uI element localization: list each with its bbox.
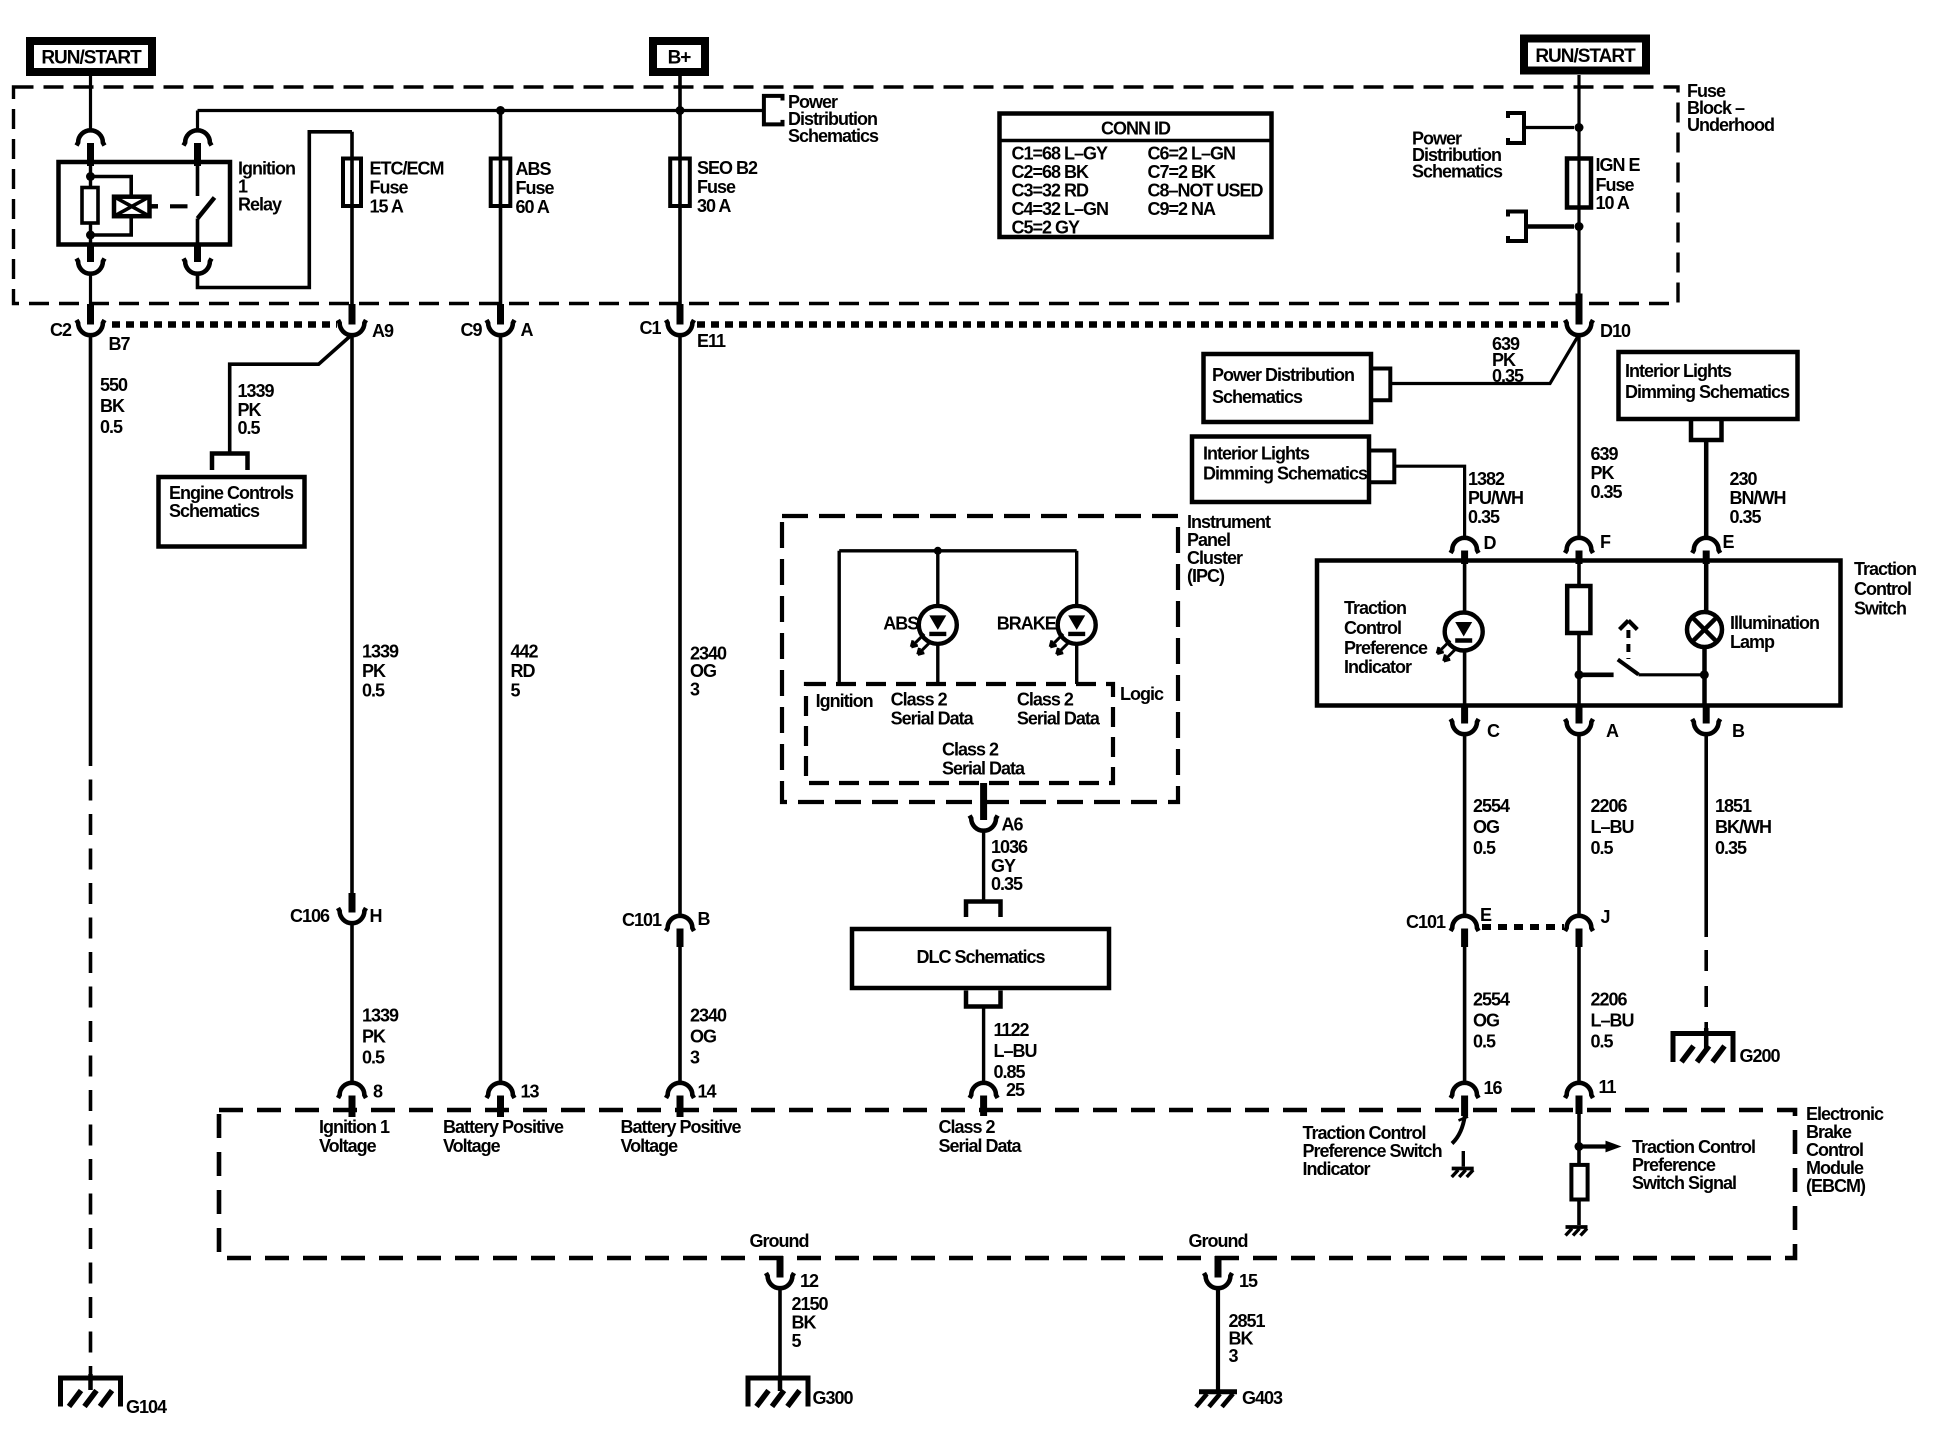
svg-text:Serial Data: Serial Data <box>942 759 1026 779</box>
svg-text:5: 5 <box>511 681 521 701</box>
svg-text:2340: 2340 <box>690 1006 727 1026</box>
svg-text:PK: PK <box>362 661 386 681</box>
svg-text:B: B <box>698 909 711 929</box>
wire IPC feed bus <box>839 549 1076 552</box>
wire ABS fuse feed <box>499 111 503 305</box>
svg-text:Cluster: Cluster <box>1187 548 1243 568</box>
svg-text:Interior Lights: Interior Lights <box>1203 444 1310 464</box>
svg-text:1851: 1851 <box>1715 796 1752 816</box>
wire 2554 OG upper <box>1463 734 1467 917</box>
svg-text:Interior Lights: Interior Lights <box>1625 361 1732 381</box>
svg-text:0.35: 0.35 <box>1715 838 1747 858</box>
svg-text:0.5: 0.5 <box>1591 838 1614 858</box>
svg-text:Switch: Switch <box>1854 599 1906 619</box>
svg-text:60 A: 60 A <box>516 197 550 217</box>
svg-text:5: 5 <box>792 1331 802 1351</box>
svg-text:Traction Control: Traction Control <box>1632 1137 1755 1157</box>
svg-text:Ignition: Ignition <box>816 691 873 711</box>
svg-text:0.5: 0.5 <box>1591 1032 1614 1052</box>
connector J <box>1565 916 1593 931</box>
wire D inside switch <box>1463 564 1467 613</box>
svg-text:1122: 1122 <box>994 1020 1030 1040</box>
connector terminal relay coil top <box>77 130 105 145</box>
svg-text:OG: OG <box>1473 817 1499 837</box>
svg-text:D: D <box>1484 533 1497 553</box>
svg-text:PK: PK <box>362 1027 386 1047</box>
svg-text:C101: C101 <box>622 910 662 930</box>
svg-text:Traction: Traction <box>1344 598 1406 618</box>
ground G104 <box>61 1378 121 1407</box>
svg-text:1339: 1339 <box>362 1006 399 1026</box>
connector C101/B <box>666 916 694 931</box>
svg-text:Control: Control <box>1806 1140 1863 1160</box>
svg-text:C9=2 NA: C9=2 NA <box>1148 199 1217 219</box>
power label RUN/START right <box>1524 39 1646 71</box>
svg-text:0.5: 0.5 <box>362 1048 385 1068</box>
svg-text:Voltage: Voltage <box>621 1136 679 1156</box>
svg-text:G200: G200 <box>1740 1046 1781 1066</box>
box DLC Schematics <box>852 929 1109 988</box>
connector C101/E <box>1451 916 1479 931</box>
bracket off-page power distribution (upper) <box>1508 113 1524 143</box>
wire 1851 BK/WH <box>1704 734 1708 938</box>
svg-text:L–BU: L–BU <box>994 1041 1037 1061</box>
svg-text:Ignition 1: Ignition 1 <box>319 1117 390 1137</box>
resistor relay coil suppression <box>82 188 98 224</box>
relay switch blade <box>198 198 215 219</box>
connector terminal relay switch bottom <box>194 245 201 263</box>
box Engine Controls Schematics <box>159 477 305 547</box>
node IPC bus junction <box>934 547 942 555</box>
wire to relay solenoid <box>91 177 132 197</box>
wire 2206 L-BU lower <box>1577 947 1581 1083</box>
wire 442 RD <box>499 335 503 1084</box>
svg-text:C9: C9 <box>461 320 483 340</box>
svg-text:Fuse: Fuse <box>516 178 555 198</box>
LED BRAKE indicator <box>1075 551 1078 606</box>
ground G403 <box>1199 1389 1237 1394</box>
connector C2/B7 <box>87 304 94 325</box>
svg-text:BK: BK <box>792 1313 817 1333</box>
svg-text:C106: C106 <box>290 906 330 926</box>
wire 550 BK dashed to G104 <box>89 335 93 746</box>
svg-text:3: 3 <box>690 680 700 700</box>
svg-text:G403: G403 <box>1242 1388 1283 1408</box>
svg-text:Ignition: Ignition <box>238 159 295 179</box>
svg-text:BRAKE: BRAKE <box>997 614 1057 634</box>
svg-text:Fuse: Fuse <box>1596 175 1635 195</box>
fuse ABS 60A <box>491 159 511 207</box>
wire ETC fuse feed <box>350 132 354 304</box>
node switch common <box>1575 670 1584 679</box>
svg-text:IGN E: IGN E <box>1596 155 1641 175</box>
svg-text:Schematics: Schematics <box>169 501 260 521</box>
svg-text:BK/WH: BK/WH <box>1715 817 1771 837</box>
ground G300 <box>778 1378 783 1391</box>
svg-text:Voltage: Voltage <box>319 1136 377 1156</box>
svg-text:Class 2: Class 2 <box>942 740 999 760</box>
svg-text:Preference: Preference <box>1344 638 1428 658</box>
svg-text:PK: PK <box>238 400 262 420</box>
wire 1339 PK to engine controls <box>230 335 352 453</box>
svg-text:Serial Data: Serial Data <box>891 709 975 729</box>
svg-text:Indicator: Indicator <box>1303 1159 1371 1179</box>
LED ABS indicator <box>936 551 939 606</box>
relay solenoid coil (box with X) <box>114 197 150 217</box>
wire 1339 PK down to C106 <box>350 335 354 894</box>
svg-text:Instrument: Instrument <box>1187 512 1271 532</box>
node junction bus/B+ <box>676 106 685 115</box>
svg-text:1036: 1036 <box>991 837 1028 857</box>
svg-text:2150: 2150 <box>792 1294 829 1314</box>
switch contact and blade <box>1579 672 1614 677</box>
connector terminal relay switch top <box>184 130 212 145</box>
svg-text:14: 14 <box>698 1082 717 1102</box>
resistor and signal arrow inside EBCM <box>1577 1114 1581 1165</box>
svg-text:639: 639 <box>1591 444 1619 464</box>
svg-text:1339: 1339 <box>362 642 399 662</box>
svg-text:CONN ID: CONN ID <box>1101 119 1171 139</box>
svg-text:10 A: 10 A <box>1596 193 1630 213</box>
momentary arrow <box>1620 621 1629 630</box>
svg-text:(IPC): (IPC) <box>1187 566 1225 586</box>
box Power Distribution Schematics <box>1204 354 1372 422</box>
svg-text:B: B <box>1732 721 1745 741</box>
node junction bus/ABS fuse <box>496 106 505 115</box>
connector dotted line C2-A9 <box>112 321 337 328</box>
mechanical linkage dash <box>170 204 188 208</box>
svg-text:ETC/ECM: ETC/ECM <box>370 159 444 179</box>
bracket below DLC <box>966 991 1001 1007</box>
connector C106/H <box>349 893 356 913</box>
svg-text:12: 12 <box>800 1271 819 1291</box>
wire 2554 OG lower <box>1463 947 1467 1083</box>
svg-text:F: F <box>1600 532 1611 552</box>
bracket off-page power distribution (lower) <box>1508 212 1526 242</box>
connector C9/A <box>497 304 504 325</box>
svg-text:C3=32 RD: C3=32 RD <box>1012 181 1090 201</box>
svg-text:Electronic: Electronic <box>1806 1104 1884 1124</box>
box Interior Lights Dimming Schematics (left) <box>1192 437 1369 503</box>
svg-text:Control: Control <box>1344 618 1401 638</box>
svg-text:A: A <box>1606 721 1619 741</box>
node lamp/switch junction <box>1700 670 1709 679</box>
dashed link C101 E-J <box>1482 924 1564 930</box>
wire 1382 PU/WH <box>1396 466 1465 538</box>
svg-text:Relay: Relay <box>238 195 282 215</box>
svg-text:E: E <box>1480 905 1492 925</box>
svg-text:0.35: 0.35 <box>1591 482 1623 502</box>
svg-text:E: E <box>1723 532 1735 552</box>
svg-text:11: 11 <box>1599 1077 1617 1097</box>
svg-text:J: J <box>1601 907 1610 927</box>
svg-text:BN/WH: BN/WH <box>1730 488 1786 508</box>
svg-text:C2=68 BK: C2=68 BK <box>1012 162 1090 182</box>
svg-text:PU/WH: PU/WH <box>1468 488 1523 508</box>
wire 2206 L-BU upper <box>1577 734 1581 917</box>
connector A9 <box>349 304 356 325</box>
svg-text:3: 3 <box>1229 1346 1239 1366</box>
wire ignition leg <box>838 551 841 684</box>
connector pin 13 EBCM <box>487 1083 515 1098</box>
connector E <box>1692 538 1720 553</box>
bracket below interior lights right box <box>1691 421 1722 440</box>
power label B+ <box>653 41 705 72</box>
connector C1/E11 <box>677 304 684 325</box>
svg-text:Module: Module <box>1806 1158 1864 1178</box>
svg-text:Lamp: Lamp <box>1730 632 1775 652</box>
bracket above DLC <box>966 902 1001 918</box>
connector C <box>1461 706 1468 724</box>
fuse SEO B2 30A <box>670 159 690 207</box>
wire 230 BN/WH <box>1704 440 1709 538</box>
svg-text:0.85: 0.85 <box>994 1062 1026 1082</box>
svg-text:30 A: 30 A <box>697 196 731 216</box>
svg-text:Traction: Traction <box>1854 559 1916 579</box>
svg-text:PK: PK <box>1591 463 1615 483</box>
svg-text:SEO B2: SEO B2 <box>697 158 758 178</box>
switch traction control preference inside EBCM <box>1452 1116 1465 1144</box>
bracket to engine controls schematics <box>212 454 248 471</box>
relay U1 Ignition 1 Relay box <box>59 162 231 245</box>
svg-text:Engine Controls: Engine Controls <box>169 483 294 503</box>
resistor in switch <box>1577 564 1581 586</box>
relay switch leg <box>196 111 199 130</box>
wire bus from relay switch to power distribution bracket <box>198 109 763 112</box>
connector F <box>1565 538 1593 553</box>
svg-text:C7=2 BK: C7=2 BK <box>1148 162 1217 182</box>
svg-text:15 A: 15 A <box>370 197 404 217</box>
connector terminal relay coil bottom <box>87 245 94 263</box>
illumination lamp <box>1704 564 1709 612</box>
svg-text:L–BU: L–BU <box>1591 817 1634 837</box>
svg-text:DLC Schematics: DLC Schematics <box>916 947 1045 967</box>
node junction upper <box>1575 123 1584 132</box>
svg-text:Schematics: Schematics <box>1212 387 1303 407</box>
svg-text:Class 2: Class 2 <box>939 1117 996 1137</box>
svg-text:15: 15 <box>1239 1271 1258 1291</box>
wire 639 PK from power distribution box <box>1392 335 1579 384</box>
wire 2851 BK <box>1216 1288 1220 1391</box>
node relay coil top <box>89 166 92 188</box>
power label RUN/START left <box>30 41 152 72</box>
wire 2340 OG <box>678 335 682 917</box>
connector D <box>1451 538 1479 553</box>
connector pin 14 EBCM <box>666 1083 694 1098</box>
connector pin 11 EBCM <box>1565 1083 1593 1098</box>
svg-text:16: 16 <box>1484 1078 1503 1098</box>
svg-text:ABS: ABS <box>516 159 552 179</box>
connector pin 8 EBCM <box>338 1083 366 1098</box>
svg-text:E11: E11 <box>697 331 726 351</box>
svg-text:1: 1 <box>238 177 248 197</box>
svg-text:Ground: Ground <box>1189 1231 1248 1251</box>
box Traction Control Switch <box>1317 561 1841 706</box>
svg-text:Illumination: Illumination <box>1730 613 1819 633</box>
svg-text:RD: RD <box>511 661 536 681</box>
svg-text:Serial Data: Serial Data <box>939 1136 1023 1156</box>
wire relay switch output loop to ETC fuse <box>198 132 353 288</box>
svg-text:RUN/START: RUN/START <box>41 48 142 69</box>
svg-text:Underhood: Underhood <box>1687 115 1774 135</box>
box EBCM dashed <box>219 1110 1795 1258</box>
svg-text:550: 550 <box>100 375 128 395</box>
svg-text:Serial Data: Serial Data <box>1017 709 1101 729</box>
svg-text:C: C <box>1487 721 1500 741</box>
table CONN ID <box>1000 114 1272 238</box>
wire RUN/START to relay coil <box>89 76 92 130</box>
svg-text:GY: GY <box>991 856 1016 876</box>
connector D10 <box>1576 294 1583 325</box>
svg-text:Voltage: Voltage <box>443 1136 501 1156</box>
svg-text:Class 2: Class 2 <box>891 690 948 710</box>
LED traction control preference indicator <box>1445 613 1483 651</box>
box Instrument Panel Cluster dashed <box>782 516 1178 802</box>
svg-text:ABS: ABS <box>883 614 919 634</box>
svg-text:C8–NOT USED: C8–NOT USED <box>1148 181 1264 201</box>
svg-text:Preference: Preference <box>1632 1155 1716 1175</box>
svg-text:0.5: 0.5 <box>238 418 261 438</box>
svg-text:Fuse: Fuse <box>370 178 409 198</box>
svg-text:C101: C101 <box>1406 912 1446 932</box>
svg-text:1382: 1382 <box>1468 469 1505 489</box>
bracket right of power distribution box <box>1371 369 1390 401</box>
svg-text:Switch Signal: Switch Signal <box>1632 1173 1736 1193</box>
svg-text:Dimming Schematics: Dimming Schematics <box>1625 382 1790 402</box>
svg-text:230: 230 <box>1730 469 1758 489</box>
svg-text:C1: C1 <box>640 318 662 338</box>
svg-text:0.5: 0.5 <box>100 417 123 437</box>
connector A6 <box>980 783 987 820</box>
fuse ETC/ECM 15A <box>343 159 361 207</box>
svg-text:0.5: 0.5 <box>1473 1032 1496 1052</box>
connector B <box>1703 706 1710 724</box>
svg-text:Panel: Panel <box>1187 530 1230 550</box>
svg-text:B+: B+ <box>668 48 692 69</box>
svg-text:A9: A9 <box>372 321 394 341</box>
node junction lower <box>1575 222 1584 231</box>
svg-text:C6=2 L–GN: C6=2 L–GN <box>1148 144 1236 164</box>
svg-text:Class 2: Class 2 <box>1017 690 1074 710</box>
connector pin 16 EBCM <box>1451 1083 1479 1098</box>
svg-text:G300: G300 <box>813 1388 854 1408</box>
svg-text:A6: A6 <box>1002 815 1024 835</box>
svg-text:0.5: 0.5 <box>362 681 385 701</box>
svg-text:3: 3 <box>690 1048 700 1068</box>
svg-text:OG: OG <box>690 661 716 681</box>
svg-text:Power Distribution: Power Distribution <box>1212 365 1354 385</box>
svg-text:2554: 2554 <box>1473 990 1510 1010</box>
svg-text:C1=68 L–GY: C1=68 L–GY <box>1012 144 1109 164</box>
ground G200 <box>1704 1028 1709 1049</box>
connector A <box>1576 706 1583 724</box>
wire 639 PK down to F <box>1577 335 1580 539</box>
svg-text:BK: BK <box>100 396 125 416</box>
svg-text:Battery Positive: Battery Positive <box>621 1117 742 1137</box>
svg-text:A: A <box>521 320 534 340</box>
wire 1122 L-BU <box>982 1007 985 1084</box>
svg-text:8: 8 <box>373 1082 383 1102</box>
svg-text:13: 13 <box>521 1082 540 1102</box>
box Interior Lights Dimming Schematics (right) <box>1619 352 1798 419</box>
svg-text:L–BU: L–BU <box>1591 1011 1634 1031</box>
svg-text:G104: G104 <box>126 1397 167 1417</box>
svg-text:2554: 2554 <box>1473 796 1510 816</box>
svg-text:Dimming Schematics: Dimming Schematics <box>1203 464 1368 484</box>
svg-text:Preference Switch: Preference Switch <box>1303 1141 1442 1161</box>
svg-text:0.35: 0.35 <box>1730 507 1762 527</box>
svg-text:Indicator: Indicator <box>1344 657 1412 677</box>
svg-text:H: H <box>370 906 382 926</box>
svg-text:0.35: 0.35 <box>1468 507 1500 527</box>
svg-text:0.35: 0.35 <box>1492 366 1524 386</box>
svg-text:25: 25 <box>1006 1080 1025 1100</box>
bracket off-page: power distribution schematics (top) <box>764 96 783 125</box>
svg-text:RUN/START: RUN/START <box>1535 46 1636 67</box>
svg-text:Schematics: Schematics <box>788 126 879 146</box>
node relay coil bottom <box>86 231 95 240</box>
fuse block underhood dashed box <box>14 87 1679 304</box>
svg-text:1339: 1339 <box>238 381 275 401</box>
wire B+ to SEO fuse <box>678 76 682 304</box>
svg-text:OG: OG <box>1473 1011 1499 1031</box>
svg-text:Traction Control: Traction Control <box>1303 1123 1426 1143</box>
bracket right of interior lights left box <box>1369 451 1394 483</box>
fuse IGN E 10A <box>1567 159 1591 208</box>
svg-text:(EBCM): (EBCM) <box>1806 1176 1866 1196</box>
svg-text:D10: D10 <box>1600 321 1631 341</box>
svg-text:Control: Control <box>1854 579 1911 599</box>
svg-text:Logic: Logic <box>1120 684 1164 704</box>
svg-text:C2: C2 <box>50 320 72 340</box>
svg-text:C5=2 GY: C5=2 GY <box>1012 218 1081 238</box>
wire RUN/START right to IGN E fuse <box>1577 75 1580 294</box>
svg-text:Battery Positive: Battery Positive <box>443 1117 564 1137</box>
svg-text:C4=32 L–GN: C4=32 L–GN <box>1012 199 1109 219</box>
svg-text:442: 442 <box>511 642 539 662</box>
svg-text:Brake: Brake <box>1806 1122 1852 1142</box>
wire 1036 GY <box>982 831 985 902</box>
svg-text:Fuse: Fuse <box>697 177 736 197</box>
svg-text:Ground: Ground <box>750 1231 809 1251</box>
svg-text:2206: 2206 <box>1591 990 1628 1010</box>
svg-text:0.5: 0.5 <box>1473 838 1496 858</box>
wire 2150 BK <box>778 1288 782 1379</box>
box Logic dashed <box>806 684 1113 783</box>
connector dotted line C1-D10 <box>697 321 1558 328</box>
svg-text:Schematics: Schematics <box>1412 162 1503 182</box>
connector pin 25 EBCM <box>970 1083 998 1098</box>
svg-text:0.35: 0.35 <box>991 874 1023 894</box>
svg-text:B7: B7 <box>109 334 131 354</box>
svg-text:2206: 2206 <box>1591 796 1628 816</box>
svg-text:OG: OG <box>690 1027 716 1047</box>
